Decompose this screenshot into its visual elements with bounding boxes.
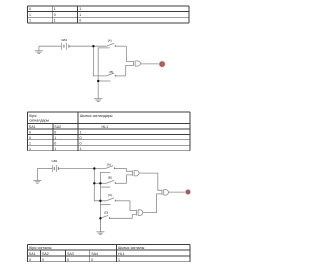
- svg-text:0: 0: [42, 258, 44, 262]
- svg-text:0: 0: [80, 136, 82, 140]
- svg-text:SA4: SA4: [91, 252, 98, 256]
- svg-text:1: 1: [79, 13, 81, 17]
- svg-text:1: 1: [29, 19, 31, 23]
- svg-text:сигналдары: сигналдары: [29, 119, 49, 123]
- svg-text:0: 0: [29, 258, 31, 262]
- svg-text:Кіріс сигналы: Кіріс сигналы: [29, 246, 52, 250]
- svg-text:GB1: GB1: [61, 38, 67, 42]
- svg-text:Шығыс сигналдары: Шығыс сигналдары: [80, 114, 113, 118]
- svg-text:0: 0: [54, 13, 56, 17]
- svg-text:1: 1: [54, 147, 56, 151]
- svg-text:1: 1: [29, 147, 31, 151]
- svg-text:0: 0: [29, 136, 31, 140]
- svg-text:0: 0: [79, 19, 81, 23]
- svg-text:0: 0: [29, 131, 31, 135]
- svg-text:SA1: SA1: [29, 252, 36, 256]
- svg-text:Кіріс: Кіріс: [29, 114, 37, 118]
- svg-text:[A]: [A]: [107, 163, 111, 167]
- svg-text:0: 0: [67, 258, 69, 262]
- svg-text:HL1: HL1: [118, 252, 125, 256]
- svg-text:0: 0: [54, 131, 56, 135]
- svg-text:1: 1: [29, 141, 31, 145]
- svg-text:GB1: GB1: [52, 159, 58, 163]
- svg-text:1: 1: [54, 7, 56, 11]
- svg-text:[C]: [C]: [108, 193, 112, 197]
- svg-text:HL1: HL1: [102, 125, 109, 129]
- svg-text:SA1: SA1: [29, 125, 36, 129]
- svg-text:SA2: SA2: [42, 252, 49, 256]
- svg-text:[D]: [D]: [104, 211, 108, 215]
- svg-text:0: 0: [80, 141, 82, 145]
- svg-text:1: 1: [80, 131, 82, 135]
- svg-text:[B]: [B]: [110, 70, 114, 74]
- svg-text:1: 1: [79, 7, 81, 11]
- svg-text:[A]: [A]: [108, 39, 112, 43]
- svg-text:Шығыс сигналы: Шығыс сигналы: [118, 246, 145, 250]
- svg-text:SA2: SA2: [54, 125, 61, 129]
- svg-text:0: 0: [91, 258, 93, 262]
- svg-text:[B]: [B]: [108, 175, 112, 179]
- svg-text:1: 1: [29, 13, 31, 17]
- svg-text:0: 0: [29, 7, 31, 11]
- svg-text:1: 1: [118, 258, 120, 262]
- svg-text:0: 0: [54, 141, 56, 145]
- svg-text:1: 1: [54, 136, 56, 140]
- svg-text:SA3: SA3: [67, 252, 74, 256]
- svg-text:1: 1: [80, 147, 82, 151]
- svg-text:1: 1: [54, 19, 56, 23]
